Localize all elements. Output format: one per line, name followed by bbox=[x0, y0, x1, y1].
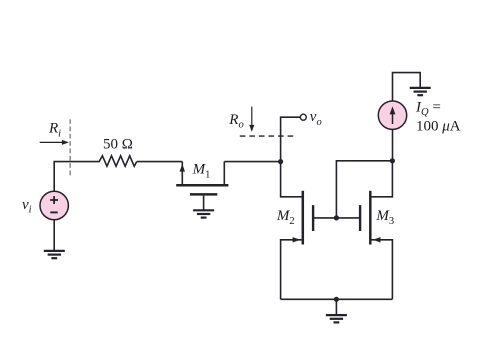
transistor M1 gate bar bbox=[190, 193, 217, 196]
terminal vo open circle bbox=[300, 114, 306, 120]
transistor M1 drain lead bbox=[223, 162, 225, 185]
svg-text:Ro: Ro bbox=[228, 112, 243, 131]
transistor M2 gate bar bbox=[312, 205, 314, 231]
wire bottom rail to ground bbox=[335, 299, 337, 314]
wire M1 gate to ground bbox=[203, 196, 205, 210]
voltage source vi bbox=[40, 191, 68, 219]
transistor M3 gate bar bbox=[359, 205, 361, 231]
wire IQ top to ground bbox=[393, 73, 421, 101]
svg-text:M3: M3 bbox=[375, 208, 394, 227]
resistor R 50ohm bbox=[97, 156, 137, 167]
vi plus sign bbox=[50, 196, 58, 204]
arrow M2 source (points right) bbox=[293, 237, 301, 242]
wire resistor to M1 source bbox=[137, 161, 183, 163]
wire gate node up and right to IQ node bbox=[336, 161, 392, 218]
wire vi top to resistor bbox=[54, 162, 97, 192]
transistor M1 source lead bbox=[181, 162, 183, 185]
wire vi bottom to ground bbox=[53, 220, 55, 251]
ground top right above IQ bbox=[410, 88, 431, 95]
svg-text:vi: vi bbox=[22, 197, 32, 216]
transistor M3 channel bbox=[369, 191, 372, 245]
Ri dashed boundary line bbox=[69, 119, 71, 175]
wire output node up to vo terminal bbox=[281, 117, 301, 161]
Ri measurement arrow bbox=[40, 140, 69, 145]
wire IQ bottom to node bbox=[392, 130, 394, 161]
node IQ drain (junction dot) bbox=[390, 158, 395, 163]
node bottom rail (junction dot) bbox=[334, 297, 339, 302]
current source IQ bbox=[378, 101, 406, 129]
wire M3 source down to rail bbox=[371, 240, 392, 299]
IQ arrow bbox=[390, 106, 396, 124]
ground under M1 gate bbox=[193, 210, 214, 217]
vi minus sign bbox=[50, 211, 57, 213]
transistor M2 channel bbox=[302, 191, 305, 245]
node gate (junction dot) bbox=[334, 215, 339, 220]
wire output node down to M2 drain bbox=[281, 162, 302, 197]
node output (junction dot) bbox=[278, 159, 283, 164]
wire bottom rail bbox=[281, 298, 393, 300]
svg-text:M2: M2 bbox=[276, 208, 295, 227]
wire gate node to M3 gate bbox=[336, 217, 359, 219]
svg-text:50 Ω: 50 Ω bbox=[103, 136, 133, 152]
arrow M1 source (points up) bbox=[180, 164, 185, 172]
svg-text:IQ =: IQ = bbox=[415, 99, 441, 118]
transistor M1 channel bbox=[176, 184, 228, 187]
ground under vi bbox=[44, 251, 65, 258]
wire M2 source down to rail bbox=[281, 240, 302, 299]
ground bottom center bbox=[326, 315, 347, 322]
wire M3 drain to IQ node bbox=[371, 161, 392, 197]
svg-text:Ri: Ri bbox=[48, 121, 61, 140]
Ro dashed boundary line bbox=[240, 135, 294, 137]
svg-text:100 μA: 100 μA bbox=[416, 119, 461, 135]
svg-text:vo: vo bbox=[310, 109, 322, 128]
wire M1 drain to output node bbox=[224, 161, 280, 163]
svg-text:M1: M1 bbox=[192, 162, 211, 181]
Ro measurement arrow (down) bbox=[249, 107, 254, 132]
arrow M3 source (points left) bbox=[373, 237, 381, 242]
wire M2 gate to gate node bbox=[313, 217, 336, 219]
